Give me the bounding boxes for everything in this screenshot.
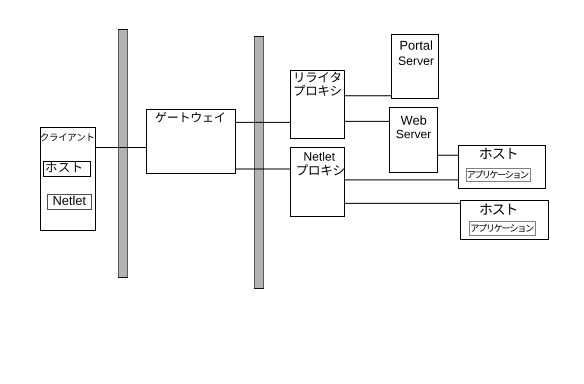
- wire Netlet proxy to host 1: [344, 179, 458, 181]
- wire gateway to Netlet proxy: [235, 168, 290, 170]
- label Netlet in client box: [54, 196, 86, 205]
- host box inside client: [44, 162, 91, 177]
- host box 2: [461, 201, 549, 240]
- Netlet box inside client: [48, 195, 92, 210]
- label hosuto in client box: [46, 162, 81, 172]
- label Netlet in Netlet proxy box: [304, 152, 335, 161]
- wire Netlet proxy to host 2: [344, 202, 460, 204]
- label hosuto in host box 1: [480, 148, 517, 159]
- application box inside host 1: [467, 169, 531, 182]
- rewriter proxy box: [291, 71, 345, 139]
- label apurikeshon (application) in host box 1: [468, 170, 529, 178]
- label gatewei (gateway): [156, 112, 225, 123]
- Portal Server box: [392, 35, 439, 99]
- label Server in Portal Server box: [399, 56, 434, 65]
- Web Server box: [390, 108, 438, 173]
- label purokishi (proxy) in rewriter box: [295, 85, 341, 96]
- wire Web Server to host 1: [437, 154, 458, 156]
- host box 1: [459, 146, 546, 189]
- label Portal in Portal Server box: [401, 40, 433, 49]
- Netlet proxy box: [291, 148, 345, 217]
- label Web in Web Server box: [401, 115, 427, 124]
- label kurainto (client): [41, 133, 94, 141]
- firewall bar 1: [119, 30, 128, 278]
- label apurikeshon (application) in host box 2: [471, 224, 533, 232]
- wire rewriter proxy to Web Server: [344, 120, 389, 122]
- label purokishi (proxy) in Netlet proxy box: [297, 164, 344, 175]
- wire gateway to rewriter proxy: [235, 121, 290, 123]
- firewall bar 2: [255, 37, 264, 289]
- label hosuto in host box 2: [480, 204, 516, 215]
- wire rewriter proxy to Portal Server: [344, 95, 391, 97]
- label Server in Web Server box: [396, 130, 431, 138]
- gateway box: [147, 110, 236, 174]
- wire client to gateway: [95, 147, 146, 149]
- label riraita (rewriter): [296, 72, 341, 83]
- application box inside host 2: [470, 222, 536, 236]
- client box: [41, 128, 96, 231]
